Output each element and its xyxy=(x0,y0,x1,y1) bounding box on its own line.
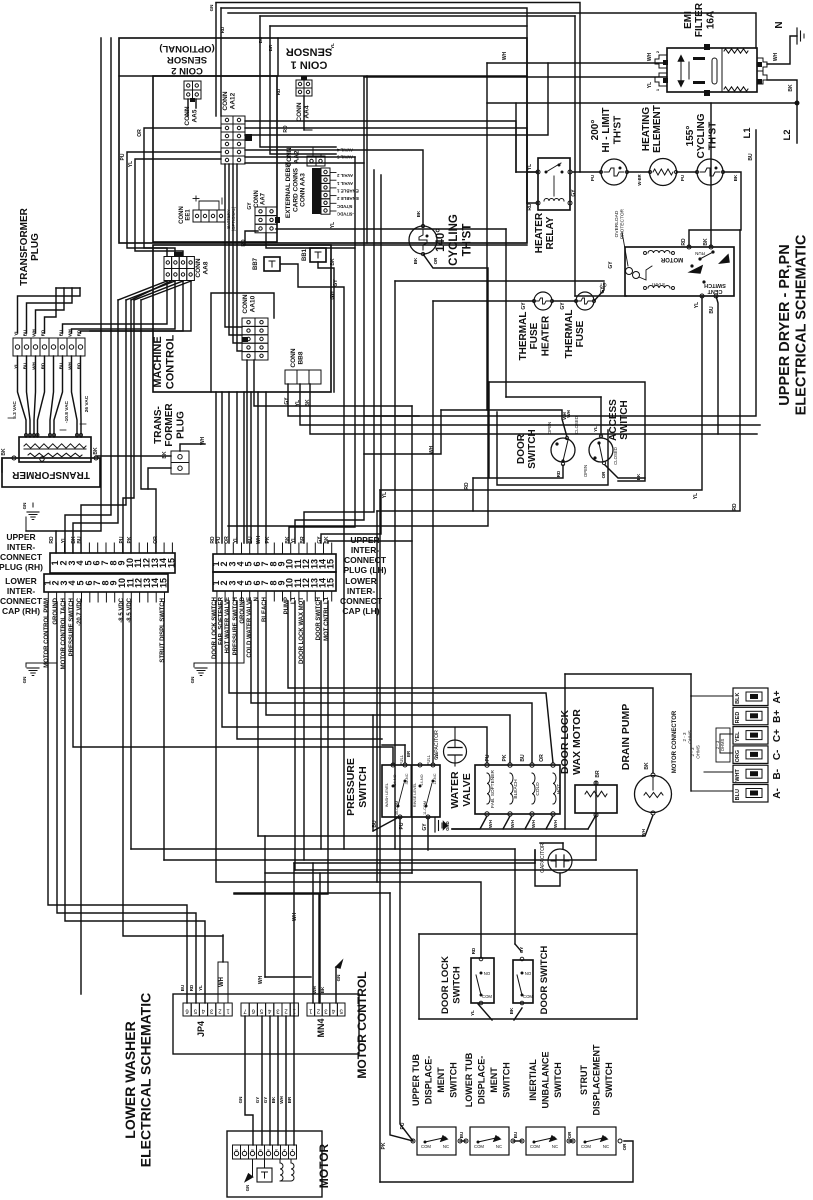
svg-text:COM: COM xyxy=(530,1144,540,1149)
svg-text:BR: BR xyxy=(300,536,306,544)
svg-text:AA7: AA7 xyxy=(261,192,267,205)
svg-text:UPPER TUB: UPPER TUB xyxy=(411,1054,421,1107)
svg-text:INTER-: INTER- xyxy=(7,586,36,596)
svg-text:WASH LEVEL: WASH LEVEL xyxy=(385,783,389,807)
svg-text:RINSE LEVEL: RINSE LEVEL xyxy=(413,783,417,807)
svg-text:DOOR LOCK: DOOR LOCK xyxy=(440,956,451,1014)
svg-text:C+: C+ xyxy=(772,729,783,742)
svg-text:YL: YL xyxy=(61,537,67,543)
svg-text:RD: RD xyxy=(527,203,533,211)
svg-text:FULL: FULL xyxy=(426,754,431,765)
svg-text:RUN: RUN xyxy=(695,251,705,256)
svg-text:CONN: CONN xyxy=(290,348,297,367)
svg-text:COIN 1: COIN 1 xyxy=(291,58,328,70)
svg-text:MOTOR: MOTOR xyxy=(317,1143,331,1188)
svg-text:TRANS-: TRANS- xyxy=(153,406,164,444)
svg-text:WH: WH xyxy=(429,445,435,454)
svg-text:AA5: AA5 xyxy=(191,109,198,122)
svg-text:TH'ST: TH'ST xyxy=(461,224,473,257)
svg-text:GY: GY xyxy=(255,1097,260,1104)
svg-text:HI - LIMIT: HI - LIMIT xyxy=(601,108,612,153)
svg-text:CLOSED: CLOSED xyxy=(613,447,618,465)
svg-text:YL: YL xyxy=(128,161,134,167)
svg-text:WAX MOTOR: WAX MOTOR xyxy=(571,709,583,775)
svg-text:NC: NC xyxy=(552,1144,558,1149)
svg-text:WH: WH xyxy=(219,977,225,987)
svg-text:BK: BK xyxy=(1,448,7,456)
svg-text:LOWER: LOWER xyxy=(5,576,37,586)
svg-text:PLUG: PLUG xyxy=(175,411,186,439)
svg-text:CONN: CONN xyxy=(296,102,303,121)
svg-text:LOWER TUB: LOWER TUB xyxy=(464,1052,474,1107)
svg-text:THERMAL: THERMAL xyxy=(518,312,529,361)
svg-text:GY: GY xyxy=(317,536,323,544)
svg-text:SWITCH: SWITCH xyxy=(502,1062,512,1098)
svg-text:PU: PU xyxy=(120,153,126,160)
svg-text:PU: PU xyxy=(216,536,222,543)
svg-text:155°: 155° xyxy=(685,126,696,147)
svg-text:PU: PU xyxy=(485,754,491,761)
svg-text:YL: YL xyxy=(198,985,203,991)
svg-text:PK: PK xyxy=(502,754,508,761)
svg-text:SENSOR: SENSOR xyxy=(167,54,207,65)
svg-text:HOT WATER VALVE: HOT WATER VALVE xyxy=(225,597,231,653)
svg-text:GROUND: GROUND xyxy=(240,596,246,623)
svg-text:BU: BU xyxy=(709,306,715,314)
svg-text:BK: BK xyxy=(416,210,421,217)
svg-text:GY: GY xyxy=(284,397,290,405)
svg-text:BK: BK xyxy=(733,174,738,181)
svg-text:OPEN: OPEN xyxy=(583,465,588,477)
svg-text:AVAIL 1: AVAIL 1 xyxy=(336,181,353,186)
svg-text:DOOR: DOOR xyxy=(516,433,527,464)
svg-text:RD: RD xyxy=(49,536,55,544)
svg-text:EXTERNAL DEBIT: EXTERNAL DEBIT xyxy=(285,162,292,218)
svg-text:MOTOR CONNECTOR: MOTOR CONNECTOR xyxy=(672,710,678,773)
svg-text:YL: YL xyxy=(694,302,700,308)
svg-text:1: 1 xyxy=(292,1008,296,1014)
svg-text:WH: WH xyxy=(647,52,653,61)
svg-text:OR: OR xyxy=(433,257,438,265)
svg-text:YL: YL xyxy=(693,493,699,499)
svg-text:STRUT DISPL SWITCH: STRUT DISPL SWITCH xyxy=(160,598,166,663)
svg-text:-8.5 VDC: -8.5 VDC xyxy=(127,597,133,622)
svg-text:OR: OR xyxy=(567,1131,572,1139)
svg-text:BLK: BLK xyxy=(735,693,741,704)
svg-text:RD: RD xyxy=(732,503,738,511)
svg-text:OHMS: OHMS xyxy=(720,739,725,752)
svg-text:RD: RD xyxy=(283,125,289,133)
svg-text:FILTER: FILTER xyxy=(694,2,705,37)
svg-text:SWITCH: SWITCH xyxy=(553,1062,563,1098)
svg-text:GN: GN xyxy=(22,677,27,684)
svg-text:YL: YL xyxy=(470,1010,475,1016)
svg-text:COIN 2: COIN 2 xyxy=(171,65,203,76)
svg-text:MOT CNTRL L1: MOT CNTRL L1 xyxy=(324,596,330,641)
svg-text:GN: GN xyxy=(238,1097,243,1104)
svg-text:CARD CONNS: CARD CONNS xyxy=(292,167,299,212)
svg-text:CAP (LH): CAP (LH) xyxy=(342,606,379,616)
svg-text:MENT: MENT xyxy=(489,1067,499,1093)
svg-text:COLD: COLD xyxy=(535,782,541,796)
svg-text:PUMP: PUMP xyxy=(284,597,290,614)
svg-text:N: N xyxy=(254,597,260,601)
svg-text:YL: YL xyxy=(291,537,297,543)
svg-text:-10.8 VAC: -10.8 VAC xyxy=(64,400,70,423)
svg-text:MOTOR: MOTOR xyxy=(660,256,683,262)
svg-text:COLD WATER VALVE: COLD WATER VALVE xyxy=(247,597,253,658)
svg-text:WATER: WATER xyxy=(449,771,461,809)
svg-text:DISPLACE-: DISPLACE- xyxy=(424,1056,434,1105)
svg-text:EMI: EMI xyxy=(683,11,694,29)
svg-text:5/7VDC: 5/7VDC xyxy=(336,204,352,209)
svg-text:200°: 200° xyxy=(590,120,601,141)
svg-text:GY: GY xyxy=(571,189,577,197)
svg-text:STRUT: STRUT xyxy=(579,1065,589,1095)
svg-text:5.3 VAC: 5.3 VAC xyxy=(12,401,18,419)
svg-text:WH: WH xyxy=(502,51,508,60)
svg-text:HOT: HOT xyxy=(556,784,562,794)
svg-text:RD: RD xyxy=(276,88,281,95)
svg-text:HEATING: HEATING xyxy=(641,107,652,151)
svg-text:C-: C- xyxy=(772,750,783,761)
svg-text:GND: GND xyxy=(445,821,450,831)
svg-text:A+: A+ xyxy=(772,690,783,703)
svg-text:-8.5 VDC: -8.5 VDC xyxy=(119,597,125,622)
svg-text:W-BR: W-BR xyxy=(637,174,642,185)
svg-text:OHMS: OHMS xyxy=(688,730,693,744)
svg-text:FUSE: FUSE xyxy=(575,320,586,347)
svg-text:OHMS: OHMS xyxy=(696,745,701,759)
svg-text:CAP (RH): CAP (RH) xyxy=(2,606,40,616)
svg-text:YL: YL xyxy=(647,82,653,88)
svg-text:A-: A- xyxy=(772,788,783,799)
svg-text:4: 4 xyxy=(331,1008,335,1014)
svg-text:-20.7 VDC: -20.7 VDC xyxy=(77,597,83,626)
svg-text:PLUG (RH): PLUG (RH) xyxy=(0,562,43,572)
svg-text:AA12: AA12 xyxy=(229,92,236,109)
svg-text:L2: L2 xyxy=(782,129,793,140)
svg-text:5: 5 xyxy=(339,1008,343,1014)
svg-text:BR: BR xyxy=(287,1096,292,1103)
svg-text:SWITCH: SWITCH xyxy=(357,766,369,807)
svg-text:BK: BK xyxy=(324,536,330,544)
svg-text:B-: B- xyxy=(772,769,783,780)
svg-text:CONNECT: CONNECT xyxy=(0,596,43,606)
svg-text:DISPLACE-: DISPLACE- xyxy=(477,1056,487,1105)
svg-text:WH: WH xyxy=(641,828,647,837)
svg-text:GY: GY xyxy=(519,947,524,954)
svg-text:YEL: YEL xyxy=(735,731,741,742)
svg-text:BLEACH: BLEACH xyxy=(513,779,519,799)
svg-text:1: 1 xyxy=(308,1008,312,1014)
svg-text:26 VAC: 26 VAC xyxy=(84,395,90,412)
svg-text:FAB. SOFTENER: FAB. SOFTENER xyxy=(490,770,496,808)
svg-text:4: 4 xyxy=(201,1008,205,1014)
svg-text:INERTIAL: INERTIAL xyxy=(528,1059,538,1101)
svg-text:BU: BU xyxy=(180,985,185,992)
svg-text:INTER-: INTER- xyxy=(347,586,376,596)
svg-text:OR: OR xyxy=(601,471,606,479)
svg-text:NO: NO xyxy=(525,971,532,976)
svg-text:YL: YL xyxy=(593,426,598,432)
svg-text:MOTOR CONTROL TACH: MOTOR CONTROL TACH xyxy=(61,598,67,669)
svg-text:START: START xyxy=(651,282,666,287)
svg-text:COM: COM xyxy=(482,994,492,999)
svg-text:RD: RD xyxy=(681,238,687,246)
svg-text:PRESSURE: PRESSURE xyxy=(345,758,357,816)
svg-text:MOTOR CONTROL: MOTOR CONTROL xyxy=(355,971,369,1078)
svg-text:TH'ST: TH'ST xyxy=(707,122,718,151)
svg-text:6: 6 xyxy=(185,1008,189,1014)
svg-text:MACHINE: MACHINE xyxy=(152,336,164,387)
svg-text:CONTROL: CONTROL xyxy=(164,335,176,390)
svg-text:DISPLACEMENT: DISPLACEMENT xyxy=(592,1044,602,1116)
svg-text:3: 3 xyxy=(209,1008,213,1014)
svg-text:BU: BU xyxy=(77,536,83,544)
svg-text:NC: NC xyxy=(443,1144,449,1149)
svg-text:GN: GN xyxy=(209,5,214,12)
svg-text:BB1: BB1 xyxy=(302,248,308,261)
svg-text:L1: L1 xyxy=(742,127,753,139)
svg-text:2: 2 xyxy=(218,1008,222,1014)
svg-text:YL: YL xyxy=(233,537,239,543)
svg-text:WH: WH xyxy=(279,1096,284,1104)
svg-text:YL: YL xyxy=(382,492,388,498)
svg-text:CONN: CONN xyxy=(242,294,249,313)
svg-text:YL: YL xyxy=(330,222,336,228)
svg-text:CAPACITOR: CAPACITOR xyxy=(540,843,546,873)
svg-text:CAPACITOR: CAPACITOR xyxy=(434,730,440,760)
svg-text:N: N xyxy=(774,21,785,28)
svg-text:VALVE: VALVE xyxy=(461,773,473,806)
svg-text:BK: BK xyxy=(162,451,168,459)
svg-text:NC: NC xyxy=(603,1144,609,1149)
svg-text:BK: BK xyxy=(703,238,709,246)
svg-text:BK: BK xyxy=(644,762,650,770)
svg-text:INTER-: INTER- xyxy=(7,542,36,552)
svg-text:WH: WH xyxy=(258,975,264,984)
svg-text:SWITCH: SWITCH xyxy=(452,966,463,1004)
svg-text:5: 5 xyxy=(259,1008,263,1014)
svg-text:HEATER: HEATER xyxy=(540,315,551,356)
svg-text:GROUND: GROUND xyxy=(53,597,59,624)
svg-text:15: 15 xyxy=(166,558,176,568)
svg-text:OR: OR xyxy=(137,129,143,137)
svg-text:HEATER: HEATER xyxy=(534,212,545,253)
svg-text:BU: BU xyxy=(748,153,754,161)
svg-text:COM: COM xyxy=(421,1144,431,1149)
svg-text:CLOSED: CLOSED xyxy=(574,416,579,434)
svg-text:COM: COM xyxy=(581,1144,591,1149)
svg-text:CONN: CONN xyxy=(222,91,229,110)
svg-text:WH: WH xyxy=(292,912,298,921)
svg-text:NO: NO xyxy=(484,971,491,976)
svg-text:15: 15 xyxy=(326,559,336,569)
svg-text:SWITCH: SWITCH xyxy=(449,1062,459,1098)
svg-text:THERMAL: THERMAL xyxy=(564,310,575,359)
svg-text:OR: OR xyxy=(153,536,159,544)
svg-text:OR: OR xyxy=(622,1143,627,1151)
svg-text:TH'ST: TH'ST xyxy=(612,116,623,145)
svg-text:LOWER: LOWER xyxy=(345,576,377,586)
svg-text:BB8: BB8 xyxy=(297,351,304,364)
svg-text:PU: PU xyxy=(590,175,595,181)
svg-text:BR: BR xyxy=(406,750,411,757)
svg-text:PK: PK xyxy=(127,536,133,543)
svg-text:RD: RD xyxy=(464,482,470,490)
svg-text:GY: GY xyxy=(600,286,606,294)
svg-text:AVAIL 2: AVAIL 2 xyxy=(336,173,353,178)
svg-text:3: 3 xyxy=(324,1008,328,1014)
svg-text:MN4: MN4 xyxy=(316,1018,326,1037)
svg-text:FULL: FULL xyxy=(399,754,404,765)
svg-text:EE1: EE1 xyxy=(186,209,192,221)
svg-text:BK: BK xyxy=(788,84,794,92)
svg-text:15: 15 xyxy=(326,578,336,588)
svg-text:GN: GN xyxy=(22,503,27,510)
svg-text:PRESSURE SWITCH: PRESSURE SWITCH xyxy=(233,597,239,655)
svg-text:WH: WH xyxy=(510,819,516,828)
svg-text:WHT: WHT xyxy=(735,769,741,782)
svg-text:2 - 3: 2 - 3 xyxy=(682,732,687,742)
svg-text:PU: PU xyxy=(119,536,125,543)
svg-text:TRANSFORMER: TRANSFORMER xyxy=(19,207,30,286)
svg-text:2: 2 xyxy=(284,1008,288,1014)
svg-text:OPEN: OPEN xyxy=(547,422,552,434)
svg-text:GY: GY xyxy=(247,202,253,210)
svg-text:PK: PK xyxy=(381,1142,387,1149)
svg-text:SENSOR: SENSOR xyxy=(286,46,333,58)
svg-text:2 - 3: 2 - 3 xyxy=(690,747,695,757)
svg-text:COM: COM xyxy=(474,1144,484,1149)
svg-text:PU: PU xyxy=(680,175,685,181)
svg-text:UPPER: UPPER xyxy=(6,532,35,542)
svg-text:GN: GN xyxy=(190,677,195,684)
svg-text:140°: 140° xyxy=(435,228,447,252)
svg-text:SWITCH: SWITCH xyxy=(527,429,538,468)
svg-text:CYCLING: CYCLING xyxy=(696,113,707,158)
svg-text:ELECTRICAL SCHEMATIC: ELECTRICAL SCHEMATIC xyxy=(138,993,154,1167)
svg-text:MOTOR CONTROL PWM: MOTOR CONTROL PWM xyxy=(44,598,50,668)
svg-text:-5/7VDC: -5/7VDC xyxy=(336,212,354,217)
svg-text:RD: RD xyxy=(471,947,476,954)
svg-text:GY: GY xyxy=(422,823,428,831)
svg-text:BK: BK xyxy=(413,257,418,264)
svg-text:GY: GY xyxy=(263,1097,268,1104)
svg-text:L1: L1 xyxy=(291,596,297,604)
svg-text:BLU: BLU xyxy=(735,789,741,800)
svg-text:UPPER: UPPER xyxy=(350,535,379,545)
svg-text:WH: WH xyxy=(488,819,494,828)
svg-text:DOOR SWITCH: DOOR SWITCH xyxy=(539,946,550,1015)
svg-text:RD: RD xyxy=(556,470,561,477)
svg-text:BU: BU xyxy=(513,1132,518,1139)
svg-text:CONN: CONN xyxy=(179,206,185,224)
svg-text:DOOR LOCK SWITCH: DOOR LOCK SWITCH xyxy=(212,597,218,659)
svg-text:B+: B+ xyxy=(772,710,783,723)
svg-text:WH: WH xyxy=(531,819,537,828)
svg-text:WH: WH xyxy=(256,535,262,544)
svg-text:15: 15 xyxy=(159,578,169,588)
svg-text:BK: BK xyxy=(93,447,99,455)
svg-text:LOWER WASHER: LOWER WASHER xyxy=(122,1021,138,1138)
svg-text:BLEACH: BLEACH xyxy=(262,597,268,622)
svg-text:BU: BU xyxy=(520,754,526,762)
svg-text:(OPTIONAL): (OPTIONAL) xyxy=(159,43,214,54)
svg-text:BU: BU xyxy=(372,820,378,828)
svg-text:32-NC: 32-NC xyxy=(405,773,409,784)
svg-text:2: 2 xyxy=(316,1008,320,1014)
svg-text:COM: COM xyxy=(523,994,533,999)
svg-text:UNBALANCE: UNBALANCE xyxy=(541,1052,551,1109)
svg-text:4: 4 xyxy=(267,1008,271,1014)
svg-text:ELEMENT: ELEMENT xyxy=(652,105,663,153)
svg-text:1: 1 xyxy=(655,88,660,91)
svg-text:CYCLING: CYCLING xyxy=(448,214,460,266)
svg-text:14-NO: 14-NO xyxy=(420,774,424,785)
svg-text:GN: GN xyxy=(245,1185,250,1191)
svg-text:FUSE: FUSE xyxy=(529,322,540,349)
svg-text:WH: WH xyxy=(312,986,317,994)
svg-text:CONNECT: CONNECT xyxy=(0,552,43,562)
svg-text:GY: GY xyxy=(599,281,607,287)
svg-text:WH: WH xyxy=(566,410,571,418)
svg-text:FORMER: FORMER xyxy=(164,403,175,447)
svg-text:RD: RD xyxy=(189,984,194,991)
svg-text:SWITCH: SWITCH xyxy=(619,400,630,439)
svg-text:GY: GY xyxy=(560,302,566,310)
svg-text:GN: GN xyxy=(336,975,341,982)
svg-text:3: 3 xyxy=(276,1008,280,1014)
svg-text:CONN: CONN xyxy=(195,258,202,277)
svg-text:YL: YL xyxy=(527,164,533,170)
svg-text:ORG: ORG xyxy=(735,750,741,763)
svg-text:INTER-: INTER- xyxy=(351,545,380,555)
svg-text:BK: BK xyxy=(636,473,641,480)
svg-text:6: 6 xyxy=(251,1008,255,1014)
svg-text:MENT: MENT xyxy=(436,1067,446,1093)
svg-text:BK: BK xyxy=(509,1007,514,1014)
svg-text:RELAY: RELAY xyxy=(545,216,556,249)
svg-text:BR: BR xyxy=(595,770,601,778)
svg-text:WH: WH xyxy=(553,819,559,828)
svg-text:SWITCH: SWITCH xyxy=(704,282,726,288)
svg-text:AA10: AA10 xyxy=(249,295,256,312)
svg-text:UPPER DRYER - PR,PN: UPPER DRYER - PR,PN xyxy=(777,244,793,405)
svg-text:DRAIN PUMP: DRAIN PUMP xyxy=(620,704,632,771)
svg-text:BK: BK xyxy=(271,1096,276,1103)
svg-text:12-NC: 12-NC xyxy=(433,773,437,784)
svg-text:GY: GY xyxy=(330,290,336,298)
svg-text:JP4: JP4 xyxy=(196,1021,206,1037)
svg-text:WH: WH xyxy=(773,52,779,61)
svg-text:2: 2 xyxy=(655,50,660,53)
svg-text:BB7: BB7 xyxy=(253,257,259,270)
svg-text:NC: NC xyxy=(496,1144,502,1149)
svg-text:GY: GY xyxy=(521,302,527,310)
svg-text:SWITCH: SWITCH xyxy=(604,1062,614,1098)
svg-text:AA8: AA8 xyxy=(202,261,209,274)
svg-text:RED: RED xyxy=(735,712,741,724)
svg-text:11-COM: 11-COM xyxy=(423,801,427,815)
svg-text:PRESSURE SWITCH: PRESSURE SWITCH xyxy=(69,598,75,656)
svg-text:CONN: CONN xyxy=(254,190,260,208)
svg-text:ACCESS: ACCESS xyxy=(608,399,619,441)
svg-text:CONN AA3: CONN AA3 xyxy=(300,173,307,207)
svg-text:PLUG: PLUG xyxy=(30,233,41,261)
svg-text:TRANSFORMER: TRANSFORMER xyxy=(11,469,90,480)
